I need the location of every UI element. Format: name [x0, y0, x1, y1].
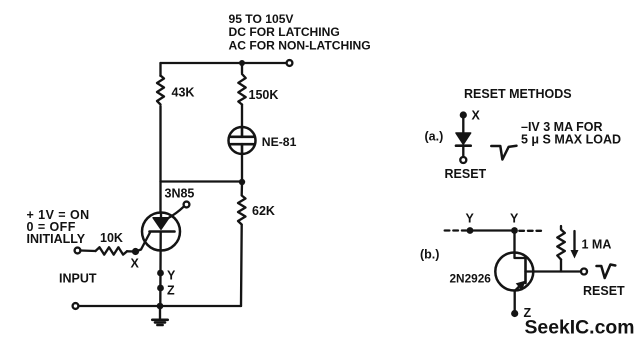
transistor Q1 emitter arrowhead: [516, 281, 526, 291]
SCS 3N85 anode-gate lead: [168, 207, 184, 219]
wire: horizontal connector between anode branch and divider node: [161, 180, 243, 182]
svg-text:2N2926: 2N2926: [450, 272, 492, 286]
resistor 10K: [96, 247, 128, 254]
svg-text:INITIALLY: INITIALLY: [27, 232, 86, 246]
wire: between Y nodes: [470, 229, 515, 231]
wire: right branch vertical above 150K: [241, 63, 243, 73]
ground symbol: [152, 320, 167, 325]
reset (b): dashed wire left: [445, 229, 467, 231]
svg-text:NE-81: NE-81: [262, 135, 297, 149]
reset (a): wire X to diode: [462, 115, 464, 133]
resistor 62K: [238, 196, 246, 225]
terminal: input open circle: [75, 248, 81, 254]
transistor Q1 base bar: [524, 257, 527, 283]
SCS 3N85 envelope: [142, 213, 180, 251]
reset (b) pulse waveform: [597, 265, 616, 279]
SCS 3N85 anode-cathode triangle: [153, 218, 169, 230]
resistor 1MA branch zigzag: [557, 226, 565, 260]
wire: input lead: [81, 249, 96, 252]
svg-text:150K: 150K: [249, 88, 279, 102]
svg-text:X: X: [472, 109, 481, 123]
transistor Q1 2N2926 envelope: [495, 253, 533, 291]
terminal: supply input open circle: [287, 60, 293, 66]
wire: vertical from 150K to NE-81: [241, 105, 243, 128]
node Y dot (b) left: [467, 227, 474, 234]
svg-text:SeekIC.com: SeekIC.com: [525, 317, 635, 339]
node: junction of 150K branch with supply rail: [239, 60, 245, 66]
wire: bottom rail: [76, 305, 242, 307]
svg-text:3N85: 3N85: [165, 187, 195, 201]
svg-text:DC FOR LATCHING: DC FOR LATCHING: [229, 25, 340, 39]
svg-text:95 TO 105V: 95 TO 105V: [229, 12, 294, 26]
SCS 3N85 cathode-gate lead from X: [136, 233, 151, 252]
node X dot: [132, 248, 139, 255]
current arrow 1 MA stem: [573, 231, 575, 251]
reset (a) pulse waveform: [491, 146, 516, 160]
svg-text:1 MA: 1 MA: [582, 238, 612, 252]
svg-text:Z: Z: [167, 284, 175, 298]
terminal: bottom-left open circle: [73, 303, 79, 309]
reset (a): wire diode to terminal: [462, 146, 464, 157]
node: ground junction dot: [157, 303, 164, 310]
terminal: reset (a) open circle: [460, 157, 466, 163]
wire: 10K to node X: [127, 250, 135, 253]
node Y dot (b) right: [511, 227, 518, 234]
svg-text:RESET METHODS: RESET METHODS: [464, 87, 572, 101]
wire: resistor to base line: [560, 260, 562, 272]
neon lamp NE-81 top electrode: [231, 127, 254, 137]
neon lamp NE-81 bottom electrode: [231, 144, 254, 154]
svg-text:INPUT: INPUT: [59, 272, 97, 286]
wire: left branch vertical below 43K down to 3N85 anode: [159, 106, 161, 213]
wire: top supply rail: [161, 62, 287, 64]
wire: vertical through 3N85 top: [160, 213, 162, 219]
terminal: anode-gate open circle: [184, 202, 190, 208]
svg-text:Y: Y: [466, 212, 475, 226]
transistor Q1 emitter lead with arrow: [515, 286, 520, 291]
node Z dot: [157, 285, 164, 292]
resistor 150K: [238, 74, 245, 105]
svg-text:Y: Y: [167, 269, 176, 283]
svg-text:Y: Y: [510, 212, 519, 226]
svg-text:10K: 10K: [100, 231, 123, 245]
transistor Q1 base lead to reset terminal: [526, 270, 582, 272]
diode D1 cathode bar: [456, 144, 471, 147]
SCS 3N85 cathode bar: [150, 230, 175, 233]
node Z dot (b): [511, 310, 518, 317]
svg-text:43K: 43K: [172, 86, 195, 100]
wire: emitter to Z: [514, 291, 516, 314]
wire: NE-81 to node junction: [241, 154, 243, 183]
svg-text:5 μ S MAX LOAD: 5 μ S MAX LOAD: [521, 133, 621, 147]
wire: Y node to transistor collector: [513, 231, 515, 254]
svg-text:X: X: [131, 257, 140, 271]
svg-text:(a.): (a.): [425, 130, 444, 144]
wire: ground stem: [159, 306, 161, 319]
reset (a): node X dot: [460, 111, 467, 118]
diode D1 triangle: [456, 133, 471, 144]
neon lamp NE-81 envelope: [229, 127, 256, 154]
reset (b): dashed wire right: [519, 230, 541, 232]
svg-text:62K: 62K: [252, 204, 275, 218]
node: junction dot at 62K / NE-81: [239, 179, 245, 185]
terminal: reset (b) open circle: [581, 269, 587, 275]
transistor Q1 collector lead: [515, 253, 526, 258]
wire: left branch vertical above 43K: [159, 63, 161, 76]
current arrow 1 MA head: [571, 250, 579, 259]
wire: 3N85 cathode down through Y and Z to ground node: [159, 232, 162, 307]
svg-text:RESET: RESET: [445, 167, 487, 181]
svg-text:RESET: RESET: [583, 284, 625, 298]
wire: vertical above 62K: [241, 183, 244, 195]
node Y dot: [157, 270, 164, 277]
resistor 43K: [157, 76, 164, 105]
svg-text:(b.): (b.): [420, 248, 439, 262]
wire: vertical below 62K to bottom rail: [240, 225, 243, 306]
svg-text:AC FOR NON-LATCHING: AC FOR NON-LATCHING: [229, 39, 371, 53]
